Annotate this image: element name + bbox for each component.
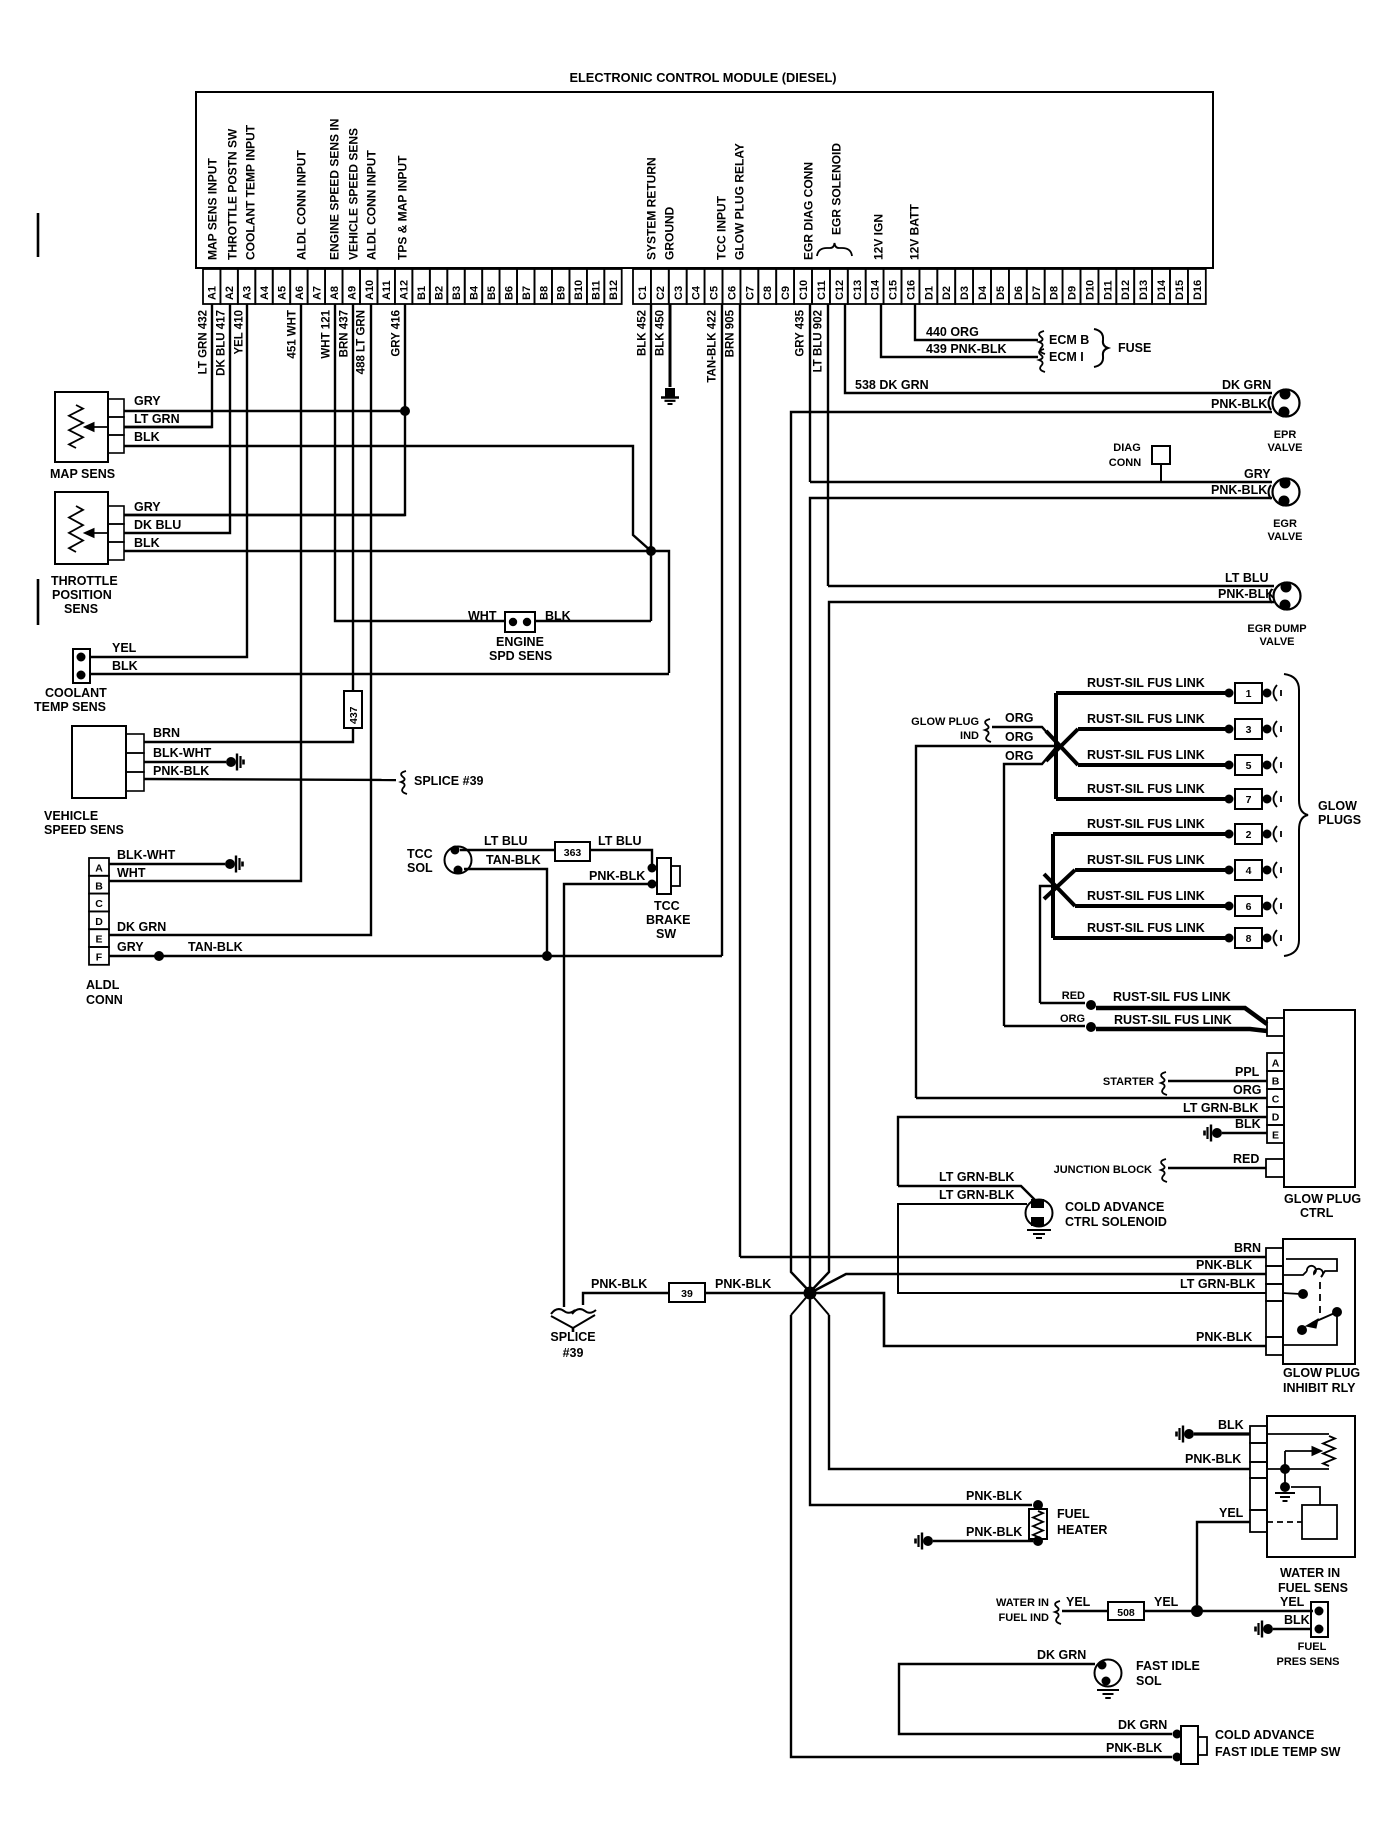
ECM pin D4: [973, 269, 991, 304]
ECM pin B4: [465, 269, 482, 304]
svg-text:VALVE: VALVE: [1267, 531, 1302, 543]
wire C11 LT BLU 902 to EGR DUMP VALVE: [827, 304, 829, 586]
svg-text:C13: C13: [852, 280, 864, 300]
svg-text:PNK-BLK: PNK-BLK: [966, 1489, 1022, 1503]
wire PPL to pin B: [1168, 1080, 1267, 1082]
wire EGR DUMP VALVE PNK-BLK rail: [810, 602, 1274, 1292]
svg-text:YEL: YEL: [112, 641, 137, 655]
wire DK GRN to FAST IDLE SOL: [899, 1664, 1172, 1734]
svg-text:BLK 450: BLK 450: [655, 310, 667, 356]
svg-text:WATER IN: WATER IN: [1280, 1566, 1340, 1580]
svg-text:C6: C6: [727, 286, 739, 300]
wire MAP SENS LT GRN: [124, 426, 212, 428]
svg-text:TAN-BLK: TAN-BLK: [486, 853, 541, 867]
svg-text:STARTER: STARTER: [1103, 1076, 1154, 1088]
wire YEL 508 to FUEL PRES SENS: [1144, 1610, 1313, 1612]
ECM pin B11: [587, 269, 604, 304]
ECM pin A11: [378, 269, 395, 304]
ECM pin A2: [220, 269, 237, 304]
svg-text:A9: A9: [346, 286, 358, 300]
junction block connector: [1266, 1159, 1284, 1177]
svg-text:C2: C2: [655, 286, 667, 300]
svg-text:LT GRN-BLK: LT GRN-BLK: [939, 1170, 1014, 1184]
svg-text:39: 39: [681, 1288, 693, 1300]
svg-text:A2: A2: [224, 286, 236, 300]
svg-text:RUST-SIL FUS LINK: RUST-SIL FUS LINK: [1087, 889, 1205, 903]
ECM pin C9: [776, 269, 794, 304]
wire LT GRN-BLK 2 rail to inhibit relay: [898, 1204, 1266, 1293]
ECM pin C8: [758, 269, 776, 304]
wire PNK-BLK fuel heater ground side: [933, 1540, 1033, 1542]
svg-text:RED: RED: [1062, 990, 1085, 1002]
svg-text:SOL: SOL: [407, 861, 433, 875]
svg-text:PRES SENS: PRES SENS: [1277, 1656, 1340, 1668]
EGR SOLENOID brace over C11-C12: [817, 243, 852, 256]
svg-text:ENGINE: ENGINE: [496, 635, 544, 649]
ECM pin C15: [884, 269, 902, 304]
wire VSS BLK-WHT to ground: [144, 761, 226, 763]
water sens wiper arrow: [1285, 1450, 1316, 1452]
wire MAP SENS BLK: [124, 446, 651, 551]
svg-text:SOL: SOL: [1136, 1674, 1162, 1688]
svg-text:TCC INPUT: TCC INPUT: [715, 195, 729, 260]
svg-text:2: 2: [1246, 829, 1252, 841]
svg-text:SW: SW: [656, 927, 676, 941]
svg-text:THROTTLE POSTN SW: THROTTLE POSTN SW: [226, 128, 240, 260]
svg-text:EGR DIAG CONN: EGR DIAG CONN: [802, 162, 816, 260]
ECM pin D8: [1045, 269, 1063, 304]
svg-text:WATER IN: WATER IN: [996, 1597, 1049, 1609]
wire A9 BRN to VEHICLE SPEED SENS: [144, 728, 353, 742]
svg-text:PPL: PPL: [1235, 1065, 1260, 1079]
svg-text:D: D: [1272, 1112, 1280, 1124]
TCC SOL circle: [445, 847, 472, 874]
svg-text:BLK: BLK: [1284, 1613, 1310, 1627]
ECM pin C2: [651, 269, 669, 304]
ECM pin C1: [633, 269, 651, 304]
wire A1 LT GRN 432 to MAP SENS: [124, 304, 212, 427]
svg-text:D15: D15: [1174, 280, 1186, 300]
svg-text:B2: B2: [434, 286, 446, 300]
svg-text:A3: A3: [242, 286, 254, 300]
svg-text:RUST-SIL FUS LINK: RUST-SIL FUS LINK: [1087, 712, 1205, 726]
svg-text:A4: A4: [259, 285, 271, 300]
water sens internal unit box: [1291, 1487, 1320, 1505]
ECM pin C12: [830, 269, 848, 304]
svg-text:D: D: [95, 916, 103, 928]
wire A12 GRY 415 to TPS: [124, 304, 405, 515]
wire C1 BLK 452: [650, 304, 652, 621]
svg-text:DK GRN: DK GRN: [1118, 1718, 1167, 1732]
svg-text:BLK: BLK: [134, 536, 160, 550]
svg-text:ORG: ORG: [1005, 711, 1033, 725]
ECM pin D9: [1063, 269, 1081, 304]
wire RED fusible link to GLOW PLUG CTRL: [1040, 1002, 1085, 1004]
TCC BRAKE SW body: [657, 858, 671, 894]
glow plug 5 connector: [1225, 761, 1234, 770]
svg-text:VALVE: VALVE: [1267, 442, 1302, 454]
svg-text:SPEED SENS: SPEED SENS: [44, 823, 124, 837]
svg-text:BLK-WHT: BLK-WHT: [117, 848, 176, 862]
VSS connector pins: [126, 734, 144, 753]
ECM pin D7: [1027, 269, 1045, 304]
svg-text:ALDL CONN INPUT: ALDL CONN INPUT: [365, 150, 379, 260]
ECM pin D15: [1170, 269, 1188, 304]
glow plug 8 connector: [1225, 934, 1234, 943]
svg-text:D14: D14: [1156, 279, 1168, 300]
wire EGR VALVE GRY: [810, 481, 1272, 483]
wire LT GRN-BLK to COLD ADVANCE CTRL SOLENOID: [898, 1186, 1035, 1200]
ECM pin C3: [669, 269, 687, 304]
svg-text:B11: B11: [591, 280, 603, 300]
svg-text:MAP SENS: MAP SENS: [50, 467, 115, 481]
inline connector 508: [1108, 1602, 1144, 1620]
ECM pin A10: [360, 269, 377, 304]
svg-text:PNK-BLK: PNK-BLK: [1196, 1330, 1252, 1344]
wire ORG glow ind 2 rail to glow plug ctrl C: [916, 746, 1058, 1098]
svg-text:RUST-SIL FUS LINK: RUST-SIL FUS LINK: [1113, 990, 1231, 1004]
svg-text:D11: D11: [1102, 280, 1114, 300]
svg-text:TCC: TCC: [654, 899, 680, 913]
wire PNK-BLK splice to 39 connector: [583, 1293, 669, 1305]
svg-text:F: F: [96, 952, 103, 964]
svg-text:GRY: GRY: [134, 500, 161, 514]
GLOW PLUGS brace: [1284, 674, 1308, 956]
svg-text:C12: C12: [834, 280, 846, 300]
svg-text:C5: C5: [709, 286, 721, 300]
glow plug 5 fusible link wire: [1078, 763, 1226, 767]
MAP SENS wiper arrow: [90, 426, 108, 428]
ECM pin B6: [500, 269, 517, 304]
wire RED to junction block connector: [1168, 1167, 1266, 1169]
svg-text:BRN 905: BRN 905: [725, 309, 737, 357]
svg-text:GLOW PLUG RELAY: GLOW PLUG RELAY: [733, 143, 747, 260]
WATER IN FUEL SENS box: [1267, 1416, 1355, 1557]
glow plug 6 connector: [1225, 902, 1234, 911]
svg-text:A6: A6: [294, 286, 306, 300]
svg-text:437: 437: [348, 706, 360, 724]
glow plug 6 fusible link wire: [1075, 904, 1226, 908]
svg-text:BRAKE: BRAKE: [646, 913, 690, 927]
svg-text:A1: A1: [207, 286, 219, 300]
svg-text:SENS: SENS: [64, 602, 98, 616]
svg-text:C1: C1: [637, 286, 649, 300]
ECM pin A6: [290, 269, 307, 304]
ECM pin C4: [687, 269, 705, 304]
glow plug 2 connector: [1225, 830, 1234, 839]
svg-text:BRN: BRN: [153, 726, 180, 740]
wire MAP SENS GRY: [124, 410, 405, 412]
svg-text:RUST-SIL FUS LINK: RUST-SIL FUS LINK: [1087, 853, 1205, 867]
svg-text:YEL: YEL: [1154, 1595, 1179, 1609]
svg-text:C9: C9: [780, 286, 792, 300]
svg-text:B10: B10: [573, 280, 585, 300]
glow plug 1 fusible link wire: [1056, 691, 1226, 695]
svg-text:RUST-SIL FUS LINK: RUST-SIL FUS LINK: [1114, 1013, 1232, 1027]
wire YEL water sens: [1197, 1522, 1250, 1605]
ECM pin C6: [723, 269, 741, 304]
glow plug fan 1 feed: [1054, 693, 1058, 799]
svg-text:451 WHT: 451 WHT: [287, 310, 299, 359]
glow plug 8 fusible link wire: [1053, 936, 1226, 940]
ECM pin D6: [1009, 269, 1027, 304]
ECM pin C7: [740, 269, 758, 304]
ECM pin D2: [937, 269, 955, 304]
DIAG CONN square: [1152, 446, 1170, 464]
svg-text:COLD ADVANCE: COLD ADVANCE: [1065, 1200, 1164, 1214]
wire C2 BLK 450 to ground: [669, 304, 672, 387]
svg-text:E: E: [95, 934, 102, 946]
svg-text:8: 8: [1246, 933, 1252, 945]
junction dot TAN-BLK/TCC: [542, 951, 552, 961]
svg-text:4: 4: [1246, 865, 1252, 877]
EPR VALVE PNK-BLK rail: [791, 412, 1272, 1292]
junction dot BLK net: [646, 546, 656, 556]
svg-text:THROTTLE: THROTTLE: [51, 574, 118, 588]
wire A9 BRN 437 upper segment: [352, 304, 354, 691]
svg-text:RUST-SIL FUS LINK: RUST-SIL FUS LINK: [1087, 748, 1205, 762]
svg-text:B7: B7: [521, 286, 533, 300]
svg-text:SPLICE: SPLICE: [550, 1330, 595, 1344]
wire PNK-BLK rail to COLD ADVANCE FAST IDLE TEMP SW: [791, 1315, 1172, 1757]
svg-text:439 PNK-BLK: 439 PNK-BLK: [926, 342, 1007, 356]
svg-text:FUEL: FUEL: [1298, 1641, 1327, 1653]
glow plug 4 connector: [1225, 866, 1234, 875]
ECM pin C10: [794, 269, 812, 304]
svg-text:A: A: [95, 863, 103, 875]
ECM pin D3: [955, 269, 973, 304]
svg-text:PNK-BLK: PNK-BLK: [589, 869, 645, 883]
wire VSS PNK-BLK to splice 39: [144, 779, 396, 780]
wire BRN C6 to GLOW PLUG INHIBIT RLY pin 1: [740, 1256, 1266, 1258]
svg-text:PNK-BLK: PNK-BLK: [966, 1525, 1022, 1539]
wire RED rail to fan 2: [1040, 886, 1053, 1003]
wire C12 538 DK GRN to EPR VALVE: [845, 304, 1272, 393]
svg-text:BLK: BLK: [1218, 1418, 1244, 1432]
wire C5 TAN-BLK 422 to ALDL pin F: [721, 304, 723, 956]
svg-text:FUEL: FUEL: [1057, 1507, 1090, 1521]
water sens connector pins: [1250, 1426, 1267, 1443]
svg-text:BLK: BLK: [1235, 1117, 1261, 1131]
wire PNK-BLK rail to FUEL HEATER: [810, 1315, 1032, 1505]
inhibit relay armature dashed: [1319, 1282, 1321, 1318]
junction dot A12/MAP GRY: [400, 406, 410, 416]
svg-text:PNK-BLK: PNK-BLK: [1211, 483, 1267, 497]
svg-text:C11: C11: [816, 280, 828, 300]
wire PNK-BLK rail to WATER IN FUEL SENS: [829, 1315, 1250, 1469]
wire LT GRN-BLK to pin D: [898, 1117, 1267, 1186]
svg-text:TEMP SENS: TEMP SENS: [34, 700, 106, 714]
ECM pin A7: [308, 269, 325, 304]
svg-text:WHT 121: WHT 121: [321, 309, 333, 358]
junction dot YEL: [1191, 1605, 1203, 1617]
splice #39 symbol: [551, 1309, 575, 1314]
inline connector 39: [669, 1283, 705, 1302]
svg-text:LT GRN: LT GRN: [134, 412, 180, 426]
svg-text:A11: A11: [381, 280, 393, 300]
svg-text:C: C: [1272, 1094, 1280, 1106]
svg-text:D16: D16: [1192, 280, 1204, 300]
ECM pin B5: [482, 269, 499, 304]
svg-text:CONN: CONN: [1109, 457, 1141, 469]
svg-text:LT BLU: LT BLU: [484, 834, 528, 848]
svg-text:B: B: [95, 880, 103, 892]
wire PNK-BLK to GLOW PLUG INHIBIT RLY pin 5: [810, 1293, 1266, 1346]
ALDL CONN pin boxes: [89, 858, 109, 876]
glow plug 3 connector: [1225, 725, 1234, 734]
svg-text:440 ORG: 440 ORG: [926, 325, 979, 339]
EGR VALVE connector: [1273, 479, 1300, 506]
svg-text:ORG: ORG: [1005, 749, 1033, 763]
TPS resistor: [69, 506, 83, 552]
svg-text:D7: D7: [1031, 286, 1043, 300]
svg-text:B8: B8: [538, 286, 550, 300]
svg-text:EGR: EGR: [1273, 518, 1297, 530]
ECM B label: [1039, 331, 1045, 354]
svg-text:PNK-BLK: PNK-BLK: [1106, 1741, 1162, 1755]
TPS wiper arrow: [90, 532, 108, 534]
svg-text:PNK-BLK: PNK-BLK: [591, 1277, 647, 1291]
svg-text:VEHICLE: VEHICLE: [44, 809, 98, 823]
ECM pin D14: [1152, 269, 1170, 304]
svg-text:A12: A12: [399, 280, 411, 300]
svg-text:BRN 437: BRN 437: [339, 310, 351, 357]
ECM pin D11: [1098, 269, 1116, 304]
junction dot ALDL F: [154, 951, 164, 961]
svg-text:D9: D9: [1067, 286, 1079, 300]
svg-text:A: A: [1272, 1058, 1280, 1070]
ECM box: [196, 92, 1213, 268]
wire EGR DUMP VALVE LT BLU: [828, 585, 1274, 587]
svg-text:3: 3: [1246, 724, 1252, 736]
svg-text:LT BLU: LT BLU: [598, 834, 642, 848]
wire TPS BLK: [124, 551, 669, 673]
svg-text:SPLICE #39: SPLICE #39: [414, 774, 484, 788]
svg-text:ENGINE SPEED SENS IN: ENGINE SPEED SENS IN: [328, 119, 342, 260]
svg-text:D3: D3: [959, 286, 971, 300]
svg-text:B4: B4: [469, 285, 481, 300]
svg-text:B5: B5: [486, 286, 498, 300]
svg-text:C7: C7: [744, 286, 756, 300]
ECM pin D13: [1134, 269, 1152, 304]
glow plug fan 2 feed: [1051, 834, 1055, 938]
svg-text:B: B: [1272, 1076, 1280, 1088]
svg-text:MAP SENS INPUT: MAP SENS INPUT: [206, 158, 220, 260]
VEHICLE SPEED SENS box: [72, 726, 126, 798]
svg-text:#39: #39: [563, 1346, 584, 1360]
svg-text:JUNCTION BLOCK: JUNCTION BLOCK: [1054, 1164, 1152, 1176]
svg-text:ECM I: ECM I: [1049, 350, 1084, 364]
MAP SENS box: [55, 392, 108, 462]
ECM pin D1: [919, 269, 937, 304]
ECM pin B2: [430, 269, 447, 304]
svg-text:GLOW: GLOW: [1318, 799, 1357, 813]
svg-text:GRY: GRY: [1244, 467, 1271, 481]
svg-text:C16: C16: [906, 280, 918, 300]
svg-text:GLOW PLUG: GLOW PLUG: [911, 716, 979, 728]
svg-text:INHIBIT RLY: INHIBIT RLY: [1283, 1381, 1356, 1395]
svg-text:6: 6: [1246, 901, 1252, 913]
svg-text:B6: B6: [503, 286, 515, 300]
svg-text:LT GRN-BLK: LT GRN-BLK: [939, 1188, 1014, 1202]
GLOW PLUG INHIBIT RLY box: [1283, 1239, 1355, 1364]
svg-text:GRY: GRY: [134, 394, 161, 408]
svg-text:C15: C15: [888, 280, 900, 300]
svg-text:COLD ADVANCE: COLD ADVANCE: [1215, 1728, 1314, 1742]
svg-text:C: C: [95, 898, 103, 910]
wire A8 WHT 121 to ENGINE SPD SENS: [335, 304, 505, 621]
ECM pin A1: [203, 269, 220, 304]
wire PNK-BLK to GLOW PLUG INHIBIT RLY pin 2: [810, 1274, 1266, 1293]
svg-text:LT GRN 432: LT GRN 432: [198, 310, 210, 374]
svg-text:B3: B3: [451, 286, 463, 300]
ECM pin C14: [866, 269, 884, 304]
svg-text:SYSTEM RETURN: SYSTEM RETURN: [645, 157, 659, 260]
svg-text:COOLANT: COOLANT: [45, 686, 107, 700]
glow plug 2 fusible link wire: [1053, 832, 1226, 836]
ECM pin B10: [570, 269, 587, 304]
splice reference symbol #39: [401, 771, 407, 794]
ECM I label: [1039, 349, 1045, 372]
svg-text:D5: D5: [995, 286, 1007, 300]
ECM pin A12: [395, 269, 412, 304]
svg-text:TPS & MAP INPUT: TPS & MAP INPUT: [396, 155, 410, 260]
svg-text:D13: D13: [1138, 280, 1150, 300]
svg-text:RUST-SIL FUS LINK: RUST-SIL FUS LINK: [1087, 782, 1205, 796]
wire BLK fuel pres sens ground: [1273, 1628, 1311, 1631]
ECM pin D10: [1081, 269, 1099, 304]
ECM pin D16: [1188, 269, 1206, 304]
svg-text:PNK-BLK: PNK-BLK: [715, 1277, 771, 1291]
svg-text:B9: B9: [556, 286, 568, 300]
svg-text:EGR DUMP: EGR DUMP: [1247, 623, 1306, 635]
inline connector 437: [344, 691, 362, 728]
water sens internal resistor: [1267, 1433, 1329, 1435]
wire C16 440 ORG to fuse: [915, 304, 1038, 340]
svg-text:C4: C4: [691, 285, 703, 300]
svg-text:1: 1: [1246, 688, 1252, 700]
svg-text:BLK-WHT: BLK-WHT: [153, 746, 212, 760]
ECM pin A3: [238, 269, 255, 304]
wire C6 BRN 905 rail: [739, 304, 741, 1257]
svg-text:LT BLU: LT BLU: [1225, 571, 1269, 585]
svg-text:LT BLU 902: LT BLU 902: [813, 310, 825, 372]
glow plug 7 fusible link wire: [1056, 797, 1226, 801]
svg-text:PNK-BLK: PNK-BLK: [1196, 1258, 1252, 1272]
svg-text:ALDL CONN INPUT: ALDL CONN INPUT: [295, 150, 309, 260]
wire A2 DK BLU 417 to THROTTLE POSITION SENS: [124, 304, 230, 533]
ECM pin B12: [604, 269, 621, 304]
svg-text:PNK-BLK: PNK-BLK: [153, 764, 209, 778]
svg-text:POSITION: POSITION: [52, 588, 112, 602]
inhibit relay contacts: [1298, 1289, 1308, 1299]
wire C14 439 PNK-BLK to fuse: [881, 304, 1038, 357]
EPR VALVE connector: [1273, 390, 1300, 417]
wire ORG to pin C: [916, 1097, 1267, 1099]
svg-text:ALDL: ALDL: [86, 978, 120, 992]
svg-text:ORG: ORG: [1005, 730, 1033, 744]
svg-text:CONN: CONN: [86, 993, 123, 1007]
svg-text:12V IGN: 12V IGN: [872, 214, 886, 260]
svg-text:FUSE: FUSE: [1118, 341, 1151, 355]
svg-text:488 LT GRN: 488 LT GRN: [356, 310, 368, 374]
svg-text:SPD SENS: SPD SENS: [489, 649, 552, 663]
inhibit relay pins: [1266, 1248, 1283, 1266]
svg-text:YEL: YEL: [1066, 1595, 1091, 1609]
svg-text:TAN-BLK 422: TAN-BLK 422: [707, 310, 719, 383]
svg-text:DK GRN: DK GRN: [1222, 378, 1271, 392]
svg-text:C8: C8: [762, 286, 774, 300]
